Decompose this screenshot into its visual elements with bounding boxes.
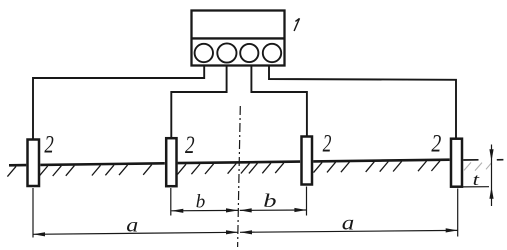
svg-text:b: b <box>263 190 276 211</box>
svg-text:2: 2 <box>431 130 441 157</box>
svg-text:2: 2 <box>44 132 53 159</box>
svg-text:a: a <box>342 212 354 234</box>
svg-text:2: 2 <box>185 132 195 159</box>
svg-text:b: b <box>196 191 206 212</box>
svg-text:2: 2 <box>323 131 332 158</box>
svg-text:a: a <box>126 213 138 236</box>
